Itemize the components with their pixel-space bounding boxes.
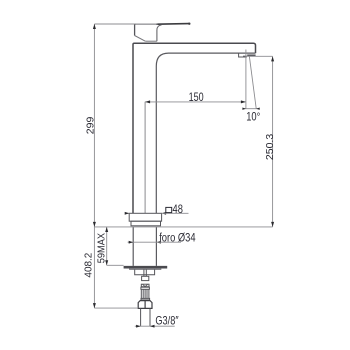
svg-text:59MAX: 59MAX [96, 233, 108, 264]
dim square48 arrows + leader [125, 212, 129, 214]
extension line top (handle top) [94, 23, 135, 25]
svg-text:foro Ø34: foro Ø34 [159, 231, 195, 244]
spout underside [156, 53, 255, 213]
dim 150 horizontal [145, 101, 246, 103]
base escutcheon plate (square 48) [129, 213, 161, 226]
faucet handle lever grip [157, 23, 191, 25]
threaded hose coupling stack [141, 284, 150, 300]
dim 59MAX vertical [106, 227, 108, 265]
svg-text:299: 299 [85, 117, 97, 135]
svg-text:250.3: 250.3 [264, 134, 276, 160]
dim G3/8 arrows + leader [135, 325, 175, 327]
outlet axis extension line [245, 50, 247, 110]
extension 250.3 top (outlet) [246, 55, 273, 57]
dim line 299/408.2 vertical [93, 24, 95, 308]
shank below counter [132, 227, 134, 266]
dim foro34 line + arrows + leader [128, 241, 157, 243]
svg-text:10°: 10° [246, 110, 260, 123]
faucet body outline (spout + column left edge) [133, 43, 256, 213]
G3/8 threaded tail tube [141, 308, 150, 326]
dim 250.3 vertical [272, 56, 274, 227]
angular dim line with arrows [243, 108, 260, 110]
extension 408.2 bottom [94, 307, 138, 309]
arrow down 408.2 bottom [93, 303, 96, 308]
aerator under spout tip [239, 53, 256, 57]
svg-text:150: 150 [189, 91, 204, 105]
hex nut [138, 301, 152, 309]
arrow up 299 top [93, 24, 96, 29]
svg-text:G3/8″: G3/8″ [155, 316, 178, 328]
handle underside diagonal [135, 36, 146, 42]
svg-text:48: 48 [173, 203, 183, 216]
svg-text:408.2: 408.2 [83, 252, 94, 277]
spray 10 degree slanted line [249, 56, 256, 109]
handle top surface line [135, 23, 159, 25]
arrow down 299 bottom at counter [93, 222, 96, 227]
handle base bottom line [145, 40, 157, 42]
connector box [142, 276, 149, 280]
mounting bracket (U) [135, 270, 155, 277]
column center edge line [144, 102, 146, 214]
countertop line [94, 226, 272, 228]
handle left edge [134, 24, 136, 36]
mounting washer [124, 266, 168, 270]
label square48 [166, 203, 183, 216]
handle base front edge [157, 25, 162, 41]
extension 59MAX bottom [107, 264, 124, 266]
